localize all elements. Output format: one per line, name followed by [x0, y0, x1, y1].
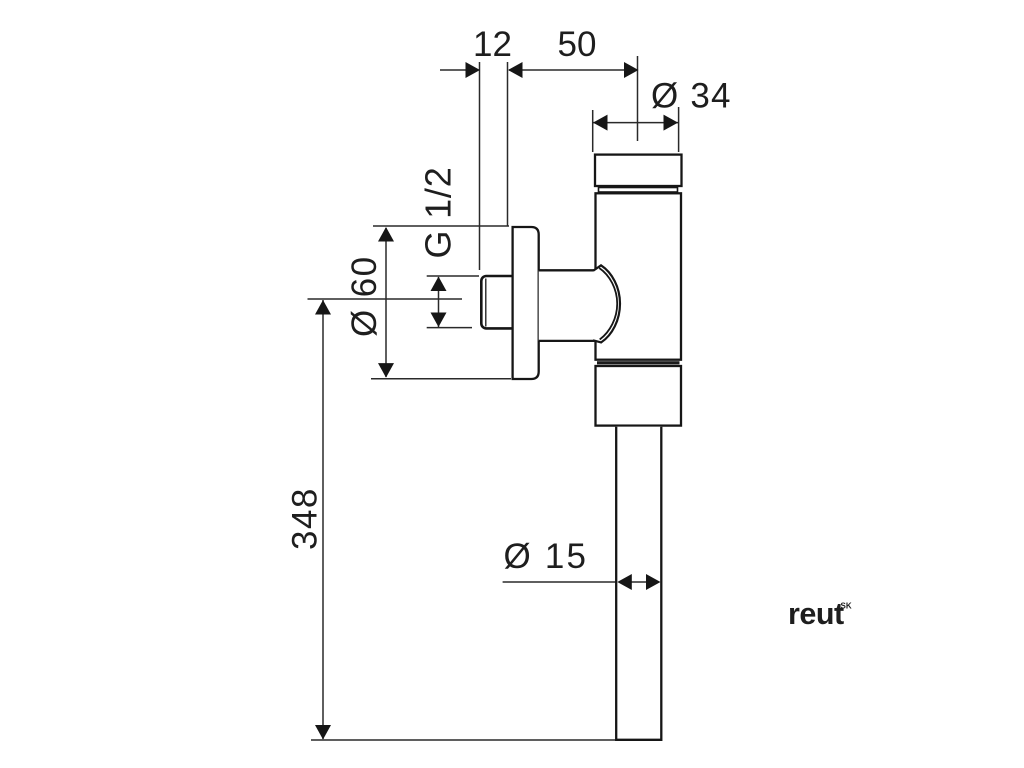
- dim line O60 vertical: [385, 228, 387, 377]
- arrowhead O34 left: [593, 115, 608, 131]
- baseline bottom: [311, 739, 617, 741]
- connector sleeve: [539, 270, 595, 341]
- arrowhead O60 down: [378, 363, 394, 378]
- dim line O34: [593, 122, 678, 124]
- ring under cap: [599, 188, 678, 193]
- leader G12 top: [427, 275, 479, 277]
- svg-text:SK: SK: [841, 602, 852, 611]
- extension line O34 right: [678, 107, 680, 152]
- arrowhead G12 down: [431, 313, 447, 328]
- valve top cap: [595, 155, 682, 186]
- arrowhead G12 up: [431, 277, 447, 292]
- svg-text:Ø 15: Ø 15: [504, 537, 589, 576]
- extension line O60 top: [373, 225, 509, 227]
- arrowhead 348 down: [315, 725, 331, 740]
- outlet pipe: [616, 427, 661, 740]
- dim line 348 vertical: [322, 300, 324, 739]
- dim shaft O15: [628, 581, 650, 583]
- escutcheon plate: [513, 227, 539, 379]
- extension line escutcheon left face: [507, 62, 509, 226]
- arrowhead O34 right: [664, 115, 679, 131]
- arrowhead 50 left: [508, 62, 523, 78]
- extension line O60 bottom: [371, 378, 511, 380]
- svg-text:50: 50: [558, 25, 597, 64]
- centerline valve body vertical: [637, 56, 639, 141]
- thread nipple: [481, 276, 520, 328]
- svg-text:12: 12: [473, 25, 512, 64]
- dim line G12 vertical: [438, 277, 440, 327]
- joint groove on body: [597, 361, 680, 364]
- logo reut: [788, 597, 852, 631]
- arrowhead O60 up: [378, 227, 394, 242]
- centerline inlet horizontal: [308, 298, 463, 300]
- lower valve body: [596, 366, 682, 426]
- leader O15: [503, 581, 616, 583]
- svg-text:348: 348: [286, 487, 325, 550]
- svg-text:G 1/2: G 1/2: [418, 166, 459, 258]
- thread nipple chamfer line: [485, 279, 487, 327]
- svg-text:reut: reut: [788, 597, 844, 631]
- svg-text:Ø 60: Ø 60: [345, 256, 384, 337]
- svg-text:Ø 34: Ø 34: [651, 77, 732, 116]
- upper valve body: [596, 193, 682, 359]
- dim shaft O15 inside pipe: [628, 581, 650, 583]
- dome cap: [593, 265, 620, 342]
- dim line 50: [509, 69, 638, 71]
- arrowhead 12 right: [466, 62, 481, 78]
- leader G12 bottom: [427, 327, 472, 329]
- arrowhead 348 up: [315, 300, 331, 315]
- extension line nipple left face: [479, 62, 481, 270]
- arrowhead O15 right: [646, 574, 661, 590]
- extension line O34 left: [592, 110, 594, 152]
- dim line 12 tail: [440, 69, 478, 71]
- arrowhead 50 right: [624, 62, 639, 78]
- arrowhead O15 left: [617, 574, 632, 590]
